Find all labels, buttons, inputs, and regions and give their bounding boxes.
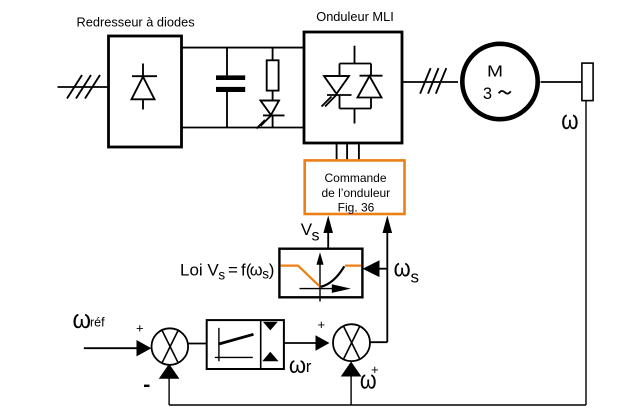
svg-text:Redresseur à diodes: Redresseur à diodes xyxy=(77,15,195,30)
rectifier box xyxy=(109,36,182,147)
V/f law box xyxy=(279,249,362,298)
wire ωs to law box xyxy=(380,268,388,270)
regulator axes xyxy=(215,328,253,361)
feedback arrowhead into junction 1 xyxy=(159,364,180,379)
three-phase input wire xyxy=(58,86,109,88)
regulator ramp line xyxy=(219,334,253,344)
inverter freewheel diode D2 xyxy=(358,64,383,109)
law curve orange right xyxy=(345,264,361,266)
reference input wire xyxy=(84,347,137,349)
svg-text:+: + xyxy=(318,317,326,332)
motor M 3~ xyxy=(462,44,537,119)
svg-text:s: s xyxy=(312,227,320,244)
control box: Commande de l'onduleur xyxy=(305,160,405,214)
ωs arrow wire to control box xyxy=(383,216,393,343)
svg-text:s: s xyxy=(411,268,420,287)
label ωr xyxy=(289,352,312,378)
svg-text:M: M xyxy=(487,64,503,81)
feedback branch wire to junction 2 xyxy=(350,375,352,405)
label: Loi Vs = f(ωs) xyxy=(180,260,274,282)
inverter box xyxy=(304,32,402,143)
svg-text:ω: ω xyxy=(561,105,578,135)
Vs signal arrow xyxy=(323,216,333,250)
svg-text:s: s xyxy=(218,268,225,283)
svg-text:ω: ω xyxy=(394,254,411,282)
summing junction 2 xyxy=(333,324,370,361)
law box vertical axis xyxy=(316,252,323,301)
regulator divider xyxy=(260,320,262,369)
svg-text:r: r xyxy=(306,357,312,376)
svg-text:ω: ω xyxy=(250,260,263,279)
feedback wire bottom xyxy=(169,404,586,406)
inverter bottom lead wire xyxy=(354,109,356,124)
law curve orange left xyxy=(281,266,320,287)
chopper transistor Q1 xyxy=(257,101,285,129)
motor wire slashes xyxy=(420,68,446,94)
svg-text:réf: réf xyxy=(90,315,105,329)
law box horizontal axis xyxy=(300,284,351,293)
svg-text:Loi V: Loi V xyxy=(180,260,219,279)
junction 2 X xyxy=(343,326,360,359)
svg-text:3: 3 xyxy=(483,85,492,103)
regulator lower limit symbol xyxy=(262,352,278,362)
motor feed wire xyxy=(402,81,458,83)
svg-text:ω: ω xyxy=(73,304,92,334)
feedback branch wire to junction 1 xyxy=(168,377,170,405)
svg-text:+: + xyxy=(136,321,144,336)
three-phase input slashes xyxy=(67,75,100,99)
inverter bottom bracket wire xyxy=(340,108,372,110)
wire regulator to junction 2 xyxy=(284,342,316,344)
svg-text:de l’onduleur: de l’onduleur xyxy=(321,186,390,200)
rectifier diode D1 xyxy=(132,64,158,110)
svg-text:ω: ω xyxy=(289,352,306,378)
braking resistor R1 xyxy=(267,48,279,101)
label Vs xyxy=(301,220,320,244)
DC bus positive wire xyxy=(182,47,305,49)
DC bus negative wire xyxy=(182,127,305,129)
arrowhead into junction 2 xyxy=(316,335,330,351)
inverter top bracket wire xyxy=(340,63,372,65)
svg-text:Onduleur MLI: Onduleur MLI xyxy=(316,9,394,24)
svg-text:): ) xyxy=(269,260,275,279)
summing junction 1 xyxy=(152,328,189,365)
wire junction 1 to regulator xyxy=(188,343,207,345)
minus sign junction 1 feedback xyxy=(144,385,150,387)
ωs input arrowhead into law box xyxy=(363,260,380,277)
svg-text:ω: ω xyxy=(360,364,377,394)
label ωréf xyxy=(73,304,106,334)
label ωs xyxy=(394,254,419,286)
tachometer xyxy=(582,63,593,101)
reference input arrowhead xyxy=(137,340,152,356)
svg-text:Fig. 36: Fig. 36 xyxy=(338,200,375,214)
gate control wires xyxy=(337,144,359,160)
shaft wire motor to tachometer xyxy=(541,81,582,83)
svg-text:Commande: Commande xyxy=(324,171,386,185)
feedback arrowhead into junction 2 xyxy=(341,362,362,377)
regulator upper limit symbol xyxy=(263,322,278,331)
inverter top lead wire xyxy=(354,46,356,64)
wire junction 2 to ωs riser xyxy=(370,341,387,343)
junction 1 X xyxy=(162,330,179,363)
feedback wire vertical right xyxy=(585,101,587,405)
svg-text:=: = xyxy=(228,260,238,279)
PI regulator box xyxy=(207,320,284,369)
filter capacitor C1 xyxy=(216,48,245,128)
inverter GTO transistor Q2 xyxy=(322,64,352,109)
law curve black xyxy=(321,266,345,287)
